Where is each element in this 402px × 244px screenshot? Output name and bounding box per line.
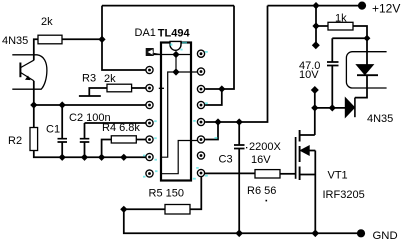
node junction dot emitter rail: [30, 101, 37, 108]
resistor R6 56: [255, 170, 280, 178]
pin R1: [197, 50, 204, 57]
node junction dot bottom wire to R5: [120, 154, 127, 161]
wire R2 top lead: [33, 105, 35, 128]
resistor 2k top-left: [38, 35, 62, 44]
IC internal L8 to R6 riser: [162, 141, 197, 174]
transistor U1 emitter diagonal with arrow: [21, 73, 34, 81]
node junction dot at rail x316: [312, 2, 319, 9]
pin L2: [146, 66, 153, 73]
pin R5: [197, 118, 204, 125]
wire emitter rail to pin L4: [34, 104, 146, 106]
capacitor C4 47.0/10V top lead: [332, 38, 367, 62]
capacitor C4 plates: [327, 62, 339, 66]
wire ground rail: [124, 209, 361, 233]
wire 1k left lead: [316, 25, 328, 27]
resistor R4 6.8k: [111, 136, 136, 143]
resistor R3 2k: [107, 84, 132, 92]
node junction dot LED wire: [311, 104, 318, 111]
pin R7: [197, 152, 204, 159]
svg-text:VT1: VT1: [328, 170, 348, 182]
wire C2 top to pin L5: [85, 122, 146, 124]
transistor VT1 channel segments: [299, 130, 301, 180]
pin L6: [146, 136, 153, 143]
svg-text:R2: R2: [8, 135, 22, 147]
pin L7: [146, 153, 153, 160]
wire riser from rail to pin 10 area: [205, 6, 234, 89]
wire drop to pin R6: [205, 122, 218, 140]
capacitor C3 2200/16V: [238, 122, 240, 145]
node junction dot 2k riser: [98, 36, 105, 43]
svg-text:R3: R3: [82, 73, 96, 85]
node junction dot feedback wire: [214, 118, 221, 125]
svg-text:16V: 16V: [251, 154, 271, 166]
pin R8: [197, 169, 204, 176]
label R6 56: [266, 200, 268, 202]
pin R4: [197, 101, 204, 108]
node junction dot C3 top: [236, 118, 243, 125]
svg-text:R6 56: R6 56: [247, 185, 276, 197]
capacitor C4 bottom lead: [331, 66, 333, 108]
wire R4 right lead to pin L6: [136, 139, 146, 141]
svg-text:10V: 10V: [299, 69, 319, 81]
pin R6: [197, 136, 204, 143]
wire 2k right lead to riser: [62, 38, 102, 40]
svg-text:DA1: DA1: [135, 27, 156, 39]
wire 1k right lead: [353, 26, 367, 38]
wire drop to pin R4: [205, 89, 222, 105]
svg-text:TL494: TL494: [158, 28, 191, 40]
transistor VT1 drain lead: [300, 134, 315, 136]
node +12V terminal dot: [358, 2, 366, 10]
node junction dot gnd source: [312, 230, 320, 238]
svg-text:2k: 2k: [104, 73, 116, 85]
node junction dot gnd C3: [235, 230, 243, 238]
wire R5 left lead: [124, 208, 165, 210]
IC internal vertical dot1-dot2: [175, 55, 177, 72]
IC internal dot2 to pin R2: [176, 71, 197, 73]
IC internal stub pin L3: [159, 87, 164, 89]
svg-text:4N35: 4N35: [2, 35, 28, 47]
resistor R5 150: [165, 205, 190, 215]
node junction dot 1k output: [364, 35, 371, 42]
cyan artifacts: [143, 42, 218, 180]
wire riser to rail and down to pin L2: [102, 6, 146, 70]
transistor U1 base bar: [19, 63, 21, 78]
svg-text:2200X: 2200X: [249, 141, 281, 153]
IC DA1 TL494 body: [161, 43, 191, 181]
wire riser +12V to pin R5 row: [205, 6, 267, 122]
pin L3: [146, 84, 153, 91]
wire top rail left segment: [102, 5, 234, 7]
pins left circles: [146, 66, 153, 177]
wire 2k left hook to collector: [34, 39, 38, 60]
pin L4: [146, 101, 153, 108]
svg-text:1k: 1k: [335, 13, 347, 25]
node junction dot C1 top: [59, 101, 66, 108]
wire top rail right segment to +12V: [268, 5, 363, 7]
IC internal dot2 left and down to pin L7: [162, 72, 176, 157]
node junction dot cap bottom: [329, 104, 336, 111]
pin L8: [146, 170, 153, 177]
resistor 1k: [328, 22, 353, 30]
diode VD1 vertical (anode top): [366, 38, 368, 64]
capacitor C2 100n: [84, 123, 86, 157]
wire R3 left lead to common bar: [79, 88, 107, 96]
pin 1 square marker: [146, 48, 154, 56]
node terminal dot column break top: [312, 41, 320, 49]
wire R6 right lead to gate: [280, 173, 296, 175]
node internal dot 2: [172, 68, 179, 75]
svg-text:+12V: +12V: [372, 2, 400, 16]
capacitor C1: [61, 105, 63, 157]
node junction dot C1 bottom: [59, 154, 66, 161]
pin L5: [146, 119, 153, 126]
optocoupler U1 4N35 phototransistor outline: [12, 55, 47, 89]
wire R4 left lead: [102, 140, 112, 158]
node GND terminal dot: [357, 229, 365, 237]
transistor VT1 IRF3205 MOSFET gate bar: [295, 137, 297, 179]
resistor R2: [30, 128, 38, 151]
svg-text:C3: C3: [219, 154, 233, 166]
wire R2 bottom lead to bottom wire: [34, 151, 146, 158]
node terminal dot column break bottom: [311, 86, 319, 94]
wire drain column: [314, 90, 316, 135]
IC internal line A with stub to pin 1: [154, 54, 191, 56]
node junction dot 1k tap: [312, 22, 319, 29]
svg-text:4N35: 4N35: [367, 113, 393, 125]
optocoupler U2 4N35 LED outline box: [346, 52, 386, 88]
pin R3: [197, 85, 204, 92]
IC notch: [170, 41, 181, 50]
node junction dot R5 tap: [120, 206, 127, 213]
svg-text:R4 6.8k: R4 6.8k: [102, 122, 140, 134]
node junction dot rail/pin wire: [218, 85, 225, 92]
wire R5 right lead riser to pin R8: [190, 176, 201, 209]
svg-text:IRF3205: IRF3205: [323, 189, 365, 201]
svg-text:C1: C1: [46, 124, 60, 136]
node internal dot 1: [172, 51, 179, 58]
wire LED anode: [315, 107, 346, 109]
pins right circles: [197, 50, 205, 176]
node junction dot R4 bottom: [98, 154, 105, 161]
diode VD2 LED horizontal (anode left): [345, 98, 354, 117]
svg-text:2k: 2k: [41, 16, 53, 28]
wire +12V column to 1k tap: [315, 6, 317, 46]
transistor VT1 body arrow: [300, 146, 309, 155]
transistor U1 collector diagonal: [21, 60, 34, 67]
wire R3 right lead to pin L3: [132, 87, 146, 89]
svg-text:R5 150: R5 150: [149, 188, 184, 200]
pin R2: [197, 68, 204, 75]
svg-text:GND: GND: [373, 230, 398, 242]
node junction dot C2 bottom: [81, 154, 88, 161]
wire R6 left lead from pin R8: [204, 172, 255, 174]
transistor VT1 source lead and down wire: [300, 151, 316, 234]
wire emitter down: [33, 81, 35, 105]
